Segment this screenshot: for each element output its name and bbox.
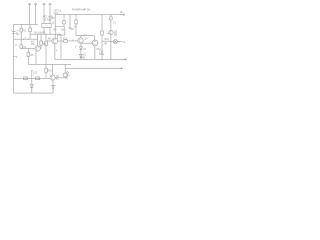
power symbol V+ stub 3: [43, 3, 46, 23]
power symbol V+ stub 1: [28, 3, 31, 24]
junction dot A: [23, 39, 24, 40]
wire Q5 emitter to rail A: [110, 35, 112, 60]
wire output lead: [117, 41, 121, 43]
resistor R1: [20, 24, 23, 44]
resistor R3: [27, 49, 30, 65]
transistor Q4: [92, 40, 98, 46]
wire Q1 emitter: [35, 51, 37, 64]
wire VCC rail: [55, 14, 125, 16]
ground: [51, 86, 55, 89]
node rail C terminal arrow: [121, 67, 124, 69]
LED D3: [63, 64, 69, 78]
wire to Q3 base: [67, 40, 78, 42]
resistor R12: [64, 40, 68, 42]
wire Q2 collector: [54, 27, 56, 39]
junction dot rail A x111: [110, 59, 111, 60]
wire Q1 base: [21, 48, 35, 50]
diode D1: [79, 47, 82, 55]
diode D2: [79, 54, 82, 59]
capacitor C4 stub: [69, 15, 72, 29]
svg-text:R12: R12: [63, 38, 68, 40]
power symbol V+ stub 2: [34, 3, 37, 24]
diode D4: [30, 85, 33, 94]
svg-text:100u: 100u: [99, 54, 105, 56]
capacitor C2 in series with R1: [20, 45, 23, 49]
wire R10 bottom drop: [64, 27, 66, 36]
svg-text:BD: BD: [114, 34, 118, 36]
resistor R16: [45, 64, 48, 78]
wire input row: [14, 77, 51, 79]
wire Q2 base: [46, 40, 52, 42]
node tick top of branch: [31, 70, 33, 72]
wire left bus vertical: [13, 24, 15, 93]
wire Q5 base stub: [107, 33, 109, 35]
junction dot rail A x102: [101, 59, 102, 60]
resistor R10: [63, 15, 66, 27]
wire rail C: [65, 67, 121, 69]
wire Q4 base: [81, 42, 92, 44]
resistor R11: [75, 15, 78, 36]
junction dot VCC x102: [101, 14, 102, 15]
wire Q4 collector: [93, 36, 95, 40]
wire bottom return: [14, 92, 54, 94]
resistor R2: [29, 24, 32, 39]
power symbol V+ stub 4: [49, 3, 52, 23]
resistor R15: [101, 15, 104, 60]
wire Q6 emitter: [52, 80, 54, 93]
svg-text:R15: R15: [105, 39, 110, 41]
svg-text:C12: C12: [33, 72, 38, 74]
junction dot Q3 collector: [80, 35, 81, 36]
junction tick x73: [72, 40, 74, 41]
wire node branch x31.8: [31, 71, 33, 85]
svg-text:POWER AMP 2W: POWER AMP 2W: [72, 8, 91, 11]
capacitor C7 on left bus: [11, 30, 15, 33]
wire feedback bracket: [58, 35, 65, 39]
junction dot B: [28, 39, 29, 40]
transistor Q1: [35, 46, 40, 51]
wire Q1 collector drop: [37, 34, 39, 46]
wire output node: [102, 40, 113, 42]
wire input node row: [14, 38, 38, 40]
svg-text:GND: GND: [80, 57, 85, 59]
svg-text:R4 10k R6: R4 10k R6: [35, 33, 47, 35]
svg-text:BC: BC: [56, 79, 60, 81]
svg-text:R16: R16: [48, 71, 53, 73]
svg-text:4R: 4R: [104, 43, 107, 45]
node rail A terminal arrow: [125, 58, 128, 60]
wire Q3 emitter: [80, 43, 82, 47]
resistor R17: [24, 77, 28, 80]
wire ground rail A: [55, 58, 126, 60]
wire mid supply rail: [30, 33, 61, 35]
wire Q3 collector: [80, 36, 82, 38]
transistor Q2: [52, 38, 58, 44]
resistor R5: [40, 34, 43, 48]
wire rail B: [28, 63, 71, 65]
wire Q4 emitter: [94, 46, 96, 60]
transistor Q5: [109, 30, 113, 34]
junction dot VCC x111: [110, 14, 111, 15]
output connector J1: [113, 40, 117, 44]
wire U1 pins down: [44, 28, 50, 35]
resistor R18: [36, 77, 40, 80]
node B+ terminal arrow: [123, 14, 126, 16]
wire Q2 emitter to rail A: [54, 44, 56, 60]
wire VCC stub to Q2 collector: [55, 15, 64, 27]
transistor Q3: [78, 38, 83, 43]
node tick on left bus: [14, 55, 16, 57]
wire collector feed rail: [76, 35, 94, 37]
svg-text:+9V 1A: +9V 1A: [54, 9, 62, 12]
wire Q6 right link: [55, 77, 65, 79]
resistor R7: [45, 34, 48, 64]
wire Q6 collector: [52, 64, 54, 75]
svg-text:LS: LS: [123, 42, 126, 44]
transistor Q6: [50, 75, 55, 80]
wire Q2 output: [58, 40, 64, 42]
capacitor C5: [110, 15, 113, 31]
wire top-left rail: [14, 23, 39, 25]
wire mid rail drop to rail A: [60, 34, 62, 59]
svg-text:VCC: VCC: [54, 13, 59, 15]
IC U1: [42, 23, 51, 27]
